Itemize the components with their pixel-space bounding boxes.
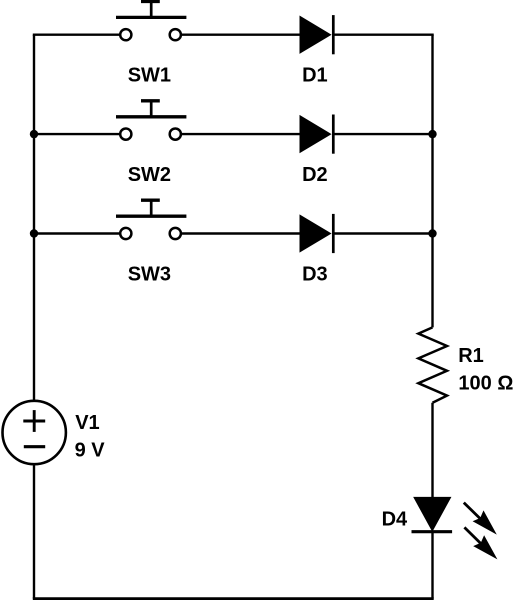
svg-text:V1: V1	[75, 412, 99, 434]
LED arrow 2	[464, 527, 497, 559]
svg-text:D4: D4	[382, 509, 408, 531]
wire row3 left	[34, 232, 119, 234]
diode D2	[300, 115, 333, 154]
wire row1 right	[333, 34, 433, 36]
wire right rail middle segment	[431, 403, 433, 498]
wire row2 middle	[182, 133, 300, 135]
wire right rail top segment	[431, 35, 433, 328]
wire bottom	[33, 597, 434, 600]
wire row1 left	[33, 34, 120, 36]
svg-text:D3: D3	[302, 264, 328, 286]
wire right rail bottom segment	[431, 532, 433, 599]
label 100 ohm	[458, 372, 513, 394]
label D4	[382, 509, 408, 531]
label 9 V	[75, 439, 106, 461]
label R1	[458, 345, 484, 367]
svg-text:D2: D2	[302, 164, 328, 186]
diode D1	[300, 15, 333, 54]
junction node right row2	[428, 130, 436, 138]
junction node right row3	[428, 229, 436, 237]
svg-text:SW1: SW1	[128, 64, 171, 86]
wire left rail bottom segment	[33, 465, 35, 598]
junction node left row3	[30, 229, 38, 237]
label D1	[302, 65, 328, 87]
wire left rail top segment	[33, 35, 35, 400]
junction node left row2	[30, 130, 38, 138]
svg-text:100 Ω: 100 Ω	[458, 372, 513, 394]
wire row2 left	[34, 133, 119, 135]
LED arrow 1	[464, 503, 497, 535]
label SW3	[128, 264, 171, 286]
wire row3 middle	[182, 232, 300, 234]
diode D3	[300, 214, 333, 253]
label SW1	[128, 64, 171, 86]
svg-text:9 V: 9 V	[75, 439, 106, 461]
wire row1 middle	[182, 34, 300, 36]
wire row2 right	[333, 133, 432, 135]
svg-text:SW2: SW2	[128, 164, 171, 186]
pushbutton switch SW1	[116, 1, 186, 40]
label D3	[302, 264, 328, 286]
voltage source V1	[3, 401, 66, 464]
label V1	[75, 412, 99, 434]
svg-text:SW3: SW3	[128, 264, 171, 286]
pushbutton switch SW2	[116, 101, 186, 140]
label SW2	[128, 164, 171, 186]
svg-text:R1: R1	[458, 345, 484, 367]
resistor R1	[418, 327, 447, 402]
label D2	[302, 164, 328, 186]
pushbutton switch SW3	[116, 200, 186, 239]
wire row3 right	[333, 232, 432, 234]
svg-text:D1: D1	[302, 65, 328, 87]
LED D4	[412, 497, 453, 531]
